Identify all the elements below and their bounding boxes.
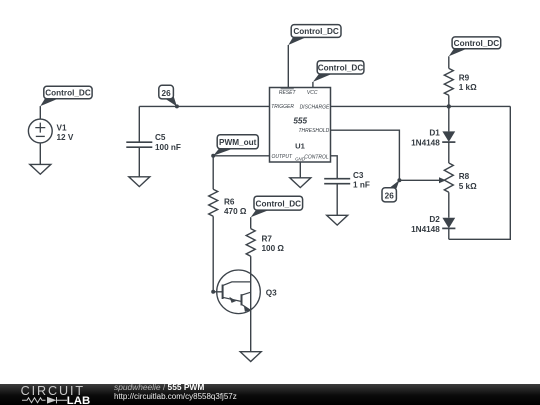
svg-text:LAB: LAB — [67, 395, 90, 405]
svg-text:5 kΩ: 5 kΩ — [459, 182, 477, 191]
svg-text:C3: C3 — [353, 171, 364, 180]
junction (PWM_out attach) — [211, 154, 215, 158]
svg-text:Control_DC: Control_DC — [256, 199, 302, 208]
net label Control_DC (RESET) — [288, 25, 341, 45]
svg-text:Control_DC: Control_DC — [318, 64, 364, 73]
wire OUTPUT to R6 — [213, 156, 269, 190]
wire R7 to Q3 collector/emitter line — [250, 256, 252, 352]
ground (under Q3) — [240, 352, 261, 362]
junction (26 label attach) — [175, 104, 179, 108]
wire VCC pin up — [312, 82, 314, 88]
svg-text:D2: D2 — [429, 215, 440, 224]
svg-text:1 kΩ: 1 kΩ — [459, 83, 477, 92]
net label Control_DC (R9) — [449, 37, 501, 56]
wire trigger net — [139, 105, 269, 107]
resistor R7 100 Ohm — [246, 229, 284, 257]
wire R9 bottom — [448, 95, 450, 131]
wire right loop — [449, 106, 511, 239]
svg-text:100 nF: 100 nF — [155, 143, 181, 152]
wire RESET pin up — [287, 45, 289, 88]
net label PWM_out — [213, 135, 258, 156]
footer url text — [114, 392, 237, 401]
ground (under V1) — [30, 164, 51, 174]
resistor R6 470 Ohm — [209, 189, 247, 216]
capacitor C5 100 nF — [126, 133, 181, 152]
wire CONTROL to C3 — [331, 156, 338, 178]
junction (26 label attach) — [397, 178, 401, 182]
svg-text:CONTROL: CONTROL — [304, 154, 329, 160]
svg-text:PWM_out: PWM_out — [219, 138, 257, 147]
wire V1 bottom — [39, 143, 41, 165]
svg-text:Control_DC: Control_DC — [45, 89, 91, 98]
svg-text:470 Ω: 470 Ω — [224, 207, 247, 216]
svg-text:555: 555 — [293, 116, 307, 125]
svg-text:D1: D1 — [429, 129, 440, 138]
net label 26 (threshold net) — [382, 180, 399, 202]
svg-text:R8: R8 — [459, 172, 470, 181]
svg-text:R6: R6 — [224, 197, 235, 206]
svg-text:1N4148: 1N4148 — [411, 225, 440, 234]
svg-text:Control_DC: Control_DC — [293, 27, 339, 36]
wire R6 bottom to base — [213, 216, 222, 292]
svg-text:26: 26 — [162, 89, 172, 98]
transistor Q3 (NPN darlington) — [217, 270, 277, 314]
svg-text:R9: R9 — [459, 73, 470, 82]
diode D2 1N4148 — [411, 215, 455, 234]
svg-text:THRESHOLD: THRESHOLD — [298, 128, 329, 134]
wire D2 bottom — [448, 228, 450, 239]
ground (under C5) — [129, 177, 150, 187]
footer title text — [114, 384, 204, 391]
svg-text:VCC: VCC — [307, 90, 318, 96]
wire R8 to D2 — [448, 192, 450, 217]
wire DISCHARGE horizontal — [331, 105, 511, 107]
wire C3 bottom — [336, 184, 338, 216]
R8 wiper arrowhead — [439, 177, 446, 183]
diode D1 1N4148 — [411, 129, 455, 148]
svg-text:Q3: Q3 — [266, 288, 277, 297]
wire label to R7 — [250, 217, 252, 228]
wire V1 top — [39, 106, 41, 119]
svg-text:U1: U1 — [295, 141, 305, 150]
footer bar — [0, 384, 540, 405]
resistor R8 5 kOhm (pot) — [444, 163, 477, 192]
svg-text:V1: V1 — [57, 124, 67, 133]
svg-text:1N4148: 1N4148 — [411, 139, 440, 148]
resistor R9 1 kOhm — [444, 68, 477, 95]
ground (U1 GND) — [290, 178, 311, 188]
ground (under C3) — [327, 215, 348, 225]
wire label to R9 — [448, 56, 450, 68]
net label Control_DC (V1 net) — [40, 86, 92, 106]
wire C5 bottom — [138, 147, 140, 177]
svg-text:26: 26 — [385, 192, 395, 201]
svg-text:DISCHARGE: DISCHARGE — [300, 104, 330, 110]
wire C5 top — [138, 106, 140, 141]
net label Control_DC (VCC) — [313, 61, 364, 82]
svg-text:Control_DC: Control_DC — [454, 39, 500, 48]
junction (base corner) — [211, 290, 215, 294]
svg-text:100 Ω: 100 Ω — [262, 244, 285, 253]
CircuitLab logo — [0, 384, 100, 405]
op-amp U1 555 timer box — [270, 88, 331, 163]
capacitor C3 1 nF — [324, 171, 370, 190]
wire THRESHOLD to R8 wiper — [331, 130, 441, 180]
svg-text:12 V: 12 V — [57, 133, 74, 142]
net label Control_DC (R7) — [251, 196, 303, 217]
junction (R9 / discharge) — [447, 104, 451, 108]
wire D1 to R8 — [448, 142, 450, 163]
voltage source V1 12 V — [28, 119, 73, 143]
svg-text:TRIGGER: TRIGGER — [271, 104, 294, 110]
svg-text:OUTPUT: OUTPUT — [272, 154, 294, 160]
svg-text:1 nF: 1 nF — [353, 181, 370, 190]
wire U1 GND pin — [299, 162, 301, 178]
net label 26 (trigger net) — [159, 85, 177, 106]
svg-text:R7: R7 — [262, 234, 273, 243]
svg-text:RESET: RESET — [279, 90, 297, 96]
svg-text:C5: C5 — [155, 133, 166, 142]
